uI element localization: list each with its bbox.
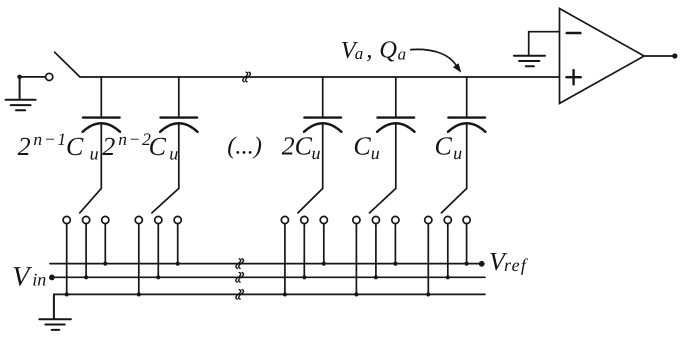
capacitor C2 bottom wire [178,124,180,188]
switch SW2 blade [152,188,179,213]
svg-text:C: C [435,132,453,161]
wire: SW5 gnd stub [427,224,429,295]
wire: op-amp output [644,55,672,57]
ground (bottom-left, ground bus) [39,294,71,330]
wire: SW1 Vref stub [104,224,106,264]
op-amp U1 minus sign [567,32,581,35]
junction SW3-Vref [322,262,326,266]
break mark on ground bus [236,290,244,300]
junction SW4-gnd [354,292,358,296]
label Cu (C5) [435,132,463,163]
junction SW3-gnd [283,292,287,296]
junction SW2-Vin [156,275,160,279]
wire: SW4 Vin stub [375,224,377,278]
wire: inverting input to ground [529,31,560,33]
svg-text:u: u [312,143,321,163]
capacitor C4 bottom curved plate [377,123,414,132]
capacitor C2 2^(n-2)Cu : top wire [178,77,180,118]
node Vin terminal dot [49,275,55,281]
wire: ground bus [54,293,485,295]
svg-text:C: C [353,132,371,161]
svg-text:a: a [398,45,407,64]
ground (op-amp inverting input) [514,56,545,66]
node: output terminal dot [672,53,677,58]
svg-text:u: u [90,144,99,164]
capacitor C5 bottom curved plate [448,123,485,132]
junction SW2-gnd [137,292,141,296]
svg-text:u: u [453,143,462,163]
label Vin [12,261,46,292]
capacitor C5 Cu : top wire [466,77,468,118]
wire: SW3 Vin stub [303,224,305,278]
wire: SW5 Vref stub [466,224,468,264]
svg-text:Q: Q [379,36,397,63]
junction SW5-Vref [465,262,469,266]
switch SW1 blade [80,188,102,213]
label Vref [489,247,529,276]
wire: dot to switch contact [20,76,46,78]
label 2^(n-2)Cu [102,129,178,163]
label 2^(n-1)Cu [18,129,99,163]
capacitor C1 2^(n-1)Cu : top wire [100,77,102,118]
svg-text:2: 2 [102,132,115,161]
svg-text:u: u [169,144,178,164]
svg-text:a: a [355,44,364,63]
svg-text:in: in [32,269,46,289]
label Cu (C4) [353,132,379,163]
capacitor C3 top plate [304,116,341,118]
svg-text:C: C [149,132,167,161]
capacitor C4 top plate [378,116,415,118]
label 2Cu [282,132,321,163]
svg-text:ref: ref [504,255,529,275]
wire: SW2 gnd stub [138,224,140,295]
svg-text:u: u [371,143,380,163]
wire: Vref bus [50,263,479,265]
switch SW4 blade [370,188,396,213]
capacitor C3 2Cu : top wire [322,77,324,118]
capacitor C1 bottom wire [100,124,102,188]
switch S0 open contact circle [46,73,53,80]
switch SW2 contact circles [135,216,142,223]
switch SW3 blade [298,188,323,213]
junction SW4-Vin [374,275,378,279]
svg-text:C: C [295,132,313,161]
capacitor C5 bottom wire [466,124,468,188]
break mark on Vin bus [236,273,244,283]
svg-text:2: 2 [18,132,31,161]
wire: top bus (node Va to comparator +) [80,76,560,78]
wire: SW1 Vin stub [85,224,87,278]
wire: SW2 Vin stub [157,224,159,278]
capacitor C2 top plate [161,116,198,118]
junction SW1-Vref [103,262,107,266]
capacitor C4 Cu : top wire [395,77,397,118]
wire: SW1 gnd stub [66,224,68,295]
node: reset switch left terminal dot [17,75,22,80]
op-amp U1 plus sign [566,76,580,78]
capacitor C2 bottom curved plate [160,123,197,132]
break mark on top bus [243,72,251,82]
svg-text:C: C [66,132,84,161]
break mark on Vref bus [236,259,244,269]
arrow pointing to node Va [411,49,457,66]
svg-text:(...): (...) [227,132,262,159]
capacitor C4 bottom wire [395,124,397,188]
junction SW5-gnd [426,292,430,296]
label Va, Qa [341,36,406,63]
svg-text:n−1: n−1 [33,129,67,149]
capacitor C1 bottom curved plate [83,123,120,132]
wire: SW5 Vin stub [447,224,449,278]
junction SW2-Vref [176,262,180,266]
capacitor C5 top plate [448,116,485,118]
switch SW4 contact circles [353,216,360,223]
switch SW5 blade [441,188,466,213]
op-amp U1 comparator triangle [560,9,645,104]
svg-text:,: , [366,36,372,63]
capacitor C3 bottom curved plate [304,123,341,132]
junction SW1-Vin [84,275,88,279]
wire: SW4 gnd stub [355,224,357,295]
ground (top-left, reset switch) [6,77,36,110]
svg-text:2: 2 [282,132,295,161]
junction SW5-Vin [446,275,450,279]
svg-text:V: V [12,261,32,292]
switch SW5 contact circles [425,216,432,223]
node Vref terminal dot [479,261,485,267]
svg-text:n−2: n−2 [118,129,152,149]
capacitor C1 top plate [83,116,120,118]
wire: SW3 gnd stub [284,224,286,295]
capacitor C3 bottom wire [322,124,324,188]
switch S0 blade [55,52,80,77]
wire: SW2 Vref stub [177,224,179,264]
junction SW1-gnd [65,292,69,296]
wire: Vin bus [52,276,485,278]
switch SW3 contact circles [281,216,288,223]
wire: SW4 Vref stub [394,224,396,264]
switch SW1 contact circles [63,216,70,223]
wire: SW3 Vref stub [323,224,325,264]
junction SW4-Vref [393,262,397,266]
junction SW3-Vin [302,275,306,279]
